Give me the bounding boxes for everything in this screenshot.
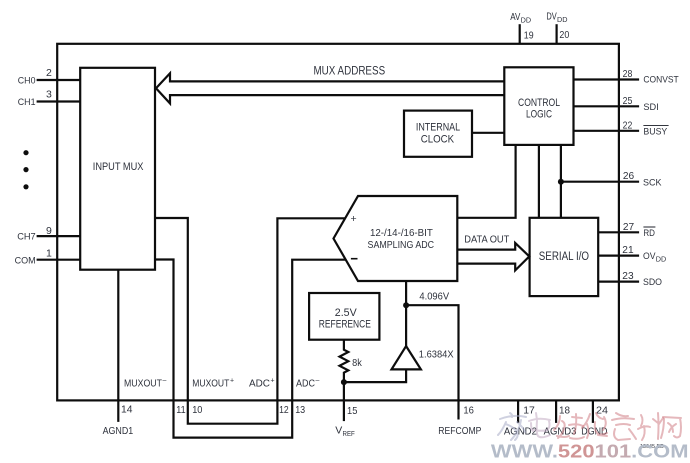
svg-text:CH7: CH7 [17, 232, 36, 243]
svg-text:CH1: CH1 [18, 97, 36, 108]
svg-text:DV: DV [546, 11, 556, 23]
svg-text:MUXOUT: MUXOUT [192, 379, 229, 390]
svg-text:21: 21 [622, 244, 633, 256]
svg-text:12: 12 [279, 404, 289, 416]
svg-text:–: – [163, 378, 167, 385]
svg-text:+: + [230, 378, 234, 385]
svg-text:WWW.520101.COM: WWW.520101.COM [491, 441, 689, 462]
svg-text:DD: DD [656, 255, 667, 264]
svg-text:SAMPLING ADC: SAMPLING ADC [368, 240, 435, 251]
svg-text:OV: OV [643, 251, 656, 262]
svg-text:DD: DD [557, 15, 568, 24]
svg-text:1: 1 [46, 248, 52, 260]
svg-text:16: 16 [463, 404, 474, 416]
svg-text:–: – [316, 378, 320, 385]
svg-text:9: 9 [46, 225, 52, 237]
svg-text:22: 22 [623, 119, 633, 131]
svg-text:26: 26 [623, 170, 634, 182]
svg-text:CLOCK: CLOCK [421, 133, 455, 145]
svg-text:12-/14-/16-BIT: 12-/14-/16-BIT [370, 228, 433, 239]
svg-text:15: 15 [347, 405, 358, 417]
svg-text:ADC: ADC [249, 379, 270, 390]
svg-text:INPUT MUX: INPUT MUX [93, 161, 144, 173]
svg-text:MUX ADDRESS: MUX ADDRESS [313, 65, 385, 77]
svg-text:25: 25 [623, 95, 633, 107]
svg-text:REF: REF [343, 429, 356, 438]
svg-text:+: + [271, 378, 275, 385]
svg-text:SDO: SDO [643, 277, 662, 288]
svg-text:1.6384X: 1.6384X [419, 348, 454, 360]
svg-text:+: + [351, 213, 357, 225]
svg-text:23: 23 [622, 270, 633, 282]
svg-text:19: 19 [524, 30, 534, 42]
svg-text:ADC: ADC [296, 379, 315, 390]
svg-text:2.5V: 2.5V [335, 307, 358, 319]
svg-text:CH0: CH0 [18, 75, 36, 86]
svg-text:MUXOUT: MUXOUT [124, 379, 162, 390]
svg-text:COM: COM [15, 256, 36, 267]
svg-text:DD: DD [521, 16, 532, 25]
svg-text:REFERENCE: REFERENCE [319, 318, 371, 330]
svg-text:28: 28 [623, 68, 633, 80]
svg-text:SCK: SCK [643, 177, 662, 188]
svg-text:3: 3 [46, 89, 52, 101]
svg-text:20: 20 [559, 29, 569, 41]
svg-text:AV: AV [510, 11, 520, 23]
svg-text:11: 11 [176, 404, 186, 416]
svg-text:8k: 8k [352, 357, 362, 369]
svg-text:4.096V: 4.096V [419, 291, 449, 303]
svg-text:DATA OUT: DATA OUT [464, 233, 510, 245]
svg-text:CONTROL: CONTROL [518, 97, 560, 109]
svg-text:V: V [335, 425, 342, 437]
svg-text:LOGIC: LOGIC [526, 109, 552, 121]
svg-text:INTERNAL: INTERNAL [416, 122, 460, 134]
svg-text:14: 14 [121, 404, 133, 416]
svg-text:BUSY: BUSY [643, 126, 668, 137]
svg-text:18: 18 [559, 404, 570, 416]
svg-text:27: 27 [623, 221, 634, 233]
svg-text:AGND1: AGND1 [103, 426, 134, 437]
svg-text:CONVST: CONVST [643, 74, 678, 85]
svg-text:REFCOMP: REFCOMP [438, 426, 481, 437]
svg-text:10: 10 [192, 404, 202, 416]
svg-text:13: 13 [295, 404, 305, 416]
svg-text:SERIAL I/O: SERIAL I/O [539, 251, 589, 263]
svg-text:2: 2 [46, 67, 52, 79]
svg-text:17: 17 [523, 404, 535, 416]
svg-text:SDI: SDI [643, 102, 658, 113]
svg-text:RD: RD [643, 228, 655, 239]
